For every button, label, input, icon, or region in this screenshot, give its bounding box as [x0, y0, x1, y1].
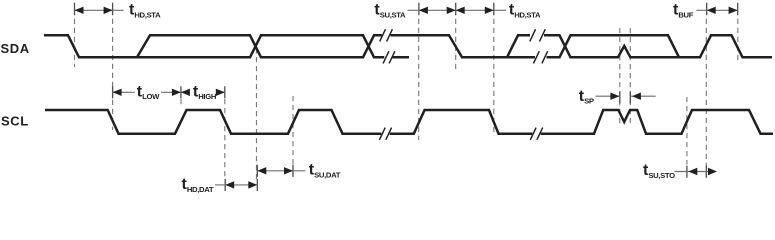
guide dashed line at SDA crossover 1 (x=256.5) [256, 48, 258, 179]
guide dashed line at SDA repeated-START fall (x=455.7) [455, 19, 457, 70]
arrowheads t_HIGH [181, 89, 190, 96]
arrowheads t_HD,STA 2 [456, 7, 465, 14]
wire SDA strand F (bottom rail after 2nd break, crossover up, top rail, eye-close fall) [547, 35, 680, 57]
arrowheads t_SU,STO [688, 168, 697, 175]
dimension line t_SU,DAT [257, 170, 305, 172]
guide dashed line at SCL rise 3 (x=418.7) [418, 19, 420, 140]
svg-text:tSU,STO: tSU,STO [643, 162, 675, 180]
svg-text:tHIGH: tHIGH [193, 83, 217, 101]
guide dashed line at spike right edge (x=630.3) [629, 28, 631, 124]
svg-text:tHD,DAT: tHD,DAT [182, 176, 214, 194]
guide dashed line at SDA start fall (x=74.5) [74, 19, 76, 67]
svg-text:tSU,STA: tSU,STA [374, 2, 406, 20]
wire SDA strand A (start high, START fall, low rail through crossovers) [44, 35, 384, 57]
dimension ticks middle row [113, 86, 225, 98]
wire SDA strand D (eye-open rising branch to top rail) [507, 35, 530, 57]
wire SDA strand C (top rail, repeated START fall, low, low rail to 2nd break) [390, 35, 535, 57]
guide dashed line at SCL rise 1 (x=181) [180, 99, 182, 107]
wire SCL waveform [45, 110, 773, 134]
wire SDA strand B (rising branch, top rail through crossovers) [137, 35, 382, 57]
svg-text:tHD,STA: tHD,STA [129, 2, 161, 20]
arrowheads t_HD,DAT [225, 181, 234, 188]
dimension ticks top row [75, 3, 738, 15]
dimension ticks t_SU,STO [687, 166, 707, 178]
guide dashed line at SCL rise 4 (x=686.9) [686, 97, 688, 165]
guide dashed line at SDA final fall (x=737.8) [737, 19, 739, 60]
dimension line t_LOW [113, 91, 181, 93]
arrowheads t_SP (inward pointing) [610, 93, 619, 100]
dimension ticks t_SU,DAT [257, 165, 293, 177]
dimension line t_BUF [696, 9, 737, 11]
arrowheads t_SU,DAT [257, 167, 266, 174]
arrowheads t_BUF [707, 7, 716, 14]
dimension line t_SP [596, 95, 656, 97]
svg-text:tSU,DAT: tSU,DAT [309, 162, 341, 180]
dimension line t_SU,STA [407, 9, 455, 11]
dimension ticks t_SP [620, 92, 631, 104]
guide dashed line at SCL fall 2 (x=224.8) [224, 99, 226, 179]
break mark SCL low rail 1 [379, 128, 391, 140]
svg-text:SDA: SDA [1, 41, 30, 56]
svg-text:tLOW: tLOW [137, 83, 160, 101]
dimension line t_HD,STA 2 [456, 9, 506, 11]
break mark SDA top rail 2 [530, 29, 546, 41]
dimension ticks t_HD,DAT [225, 179, 257, 191]
svg-text:tBUF: tBUF [673, 2, 694, 20]
break mark SDA bottom rail 1 [383, 51, 395, 63]
arrowheads t_SU,STA [419, 7, 428, 14]
svg-text:tSP: tSP [579, 88, 594, 106]
arrowheads t_LOW [113, 89, 122, 96]
break mark SDA top rail 1 [380, 29, 393, 41]
guide dashed line at SDA STOP rise (x=706.3) [705, 19, 707, 180]
guide dashed line at SCL fall 1 (x=112.6) [112, 19, 114, 130]
guide dashed line at SCL fall 3 (x=493.8) [493, 19, 495, 136]
svg-text:SCL: SCL [1, 113, 29, 128]
wire SDA bottom rail stub after break [392, 56, 409, 59]
break mark SCL low rail 2 [530, 128, 542, 140]
svg-text:tHD,STA: tHD,STA [509, 2, 541, 20]
wire SDA strand E (top rail after 2nd break, crossover down, low rail with spike, STOP rise, t_BUF high, START fall) [544, 35, 772, 57]
dimension line t_HIGH [181, 91, 225, 93]
dimension line t_HD,DAT [215, 184, 257, 186]
dimension line t_SU,STO [675, 171, 710, 173]
break mark SDA bottom rail 2 [534, 51, 548, 63]
guide dashed line at spike left edge (x=619.8) [619, 28, 621, 124]
guide dashed line at SCL rise 2 (x=293) [292, 96, 294, 165]
arrowheads t_HD,STA 1 [75, 7, 84, 14]
dimension line t_HD,STA 1 [75, 9, 124, 11]
